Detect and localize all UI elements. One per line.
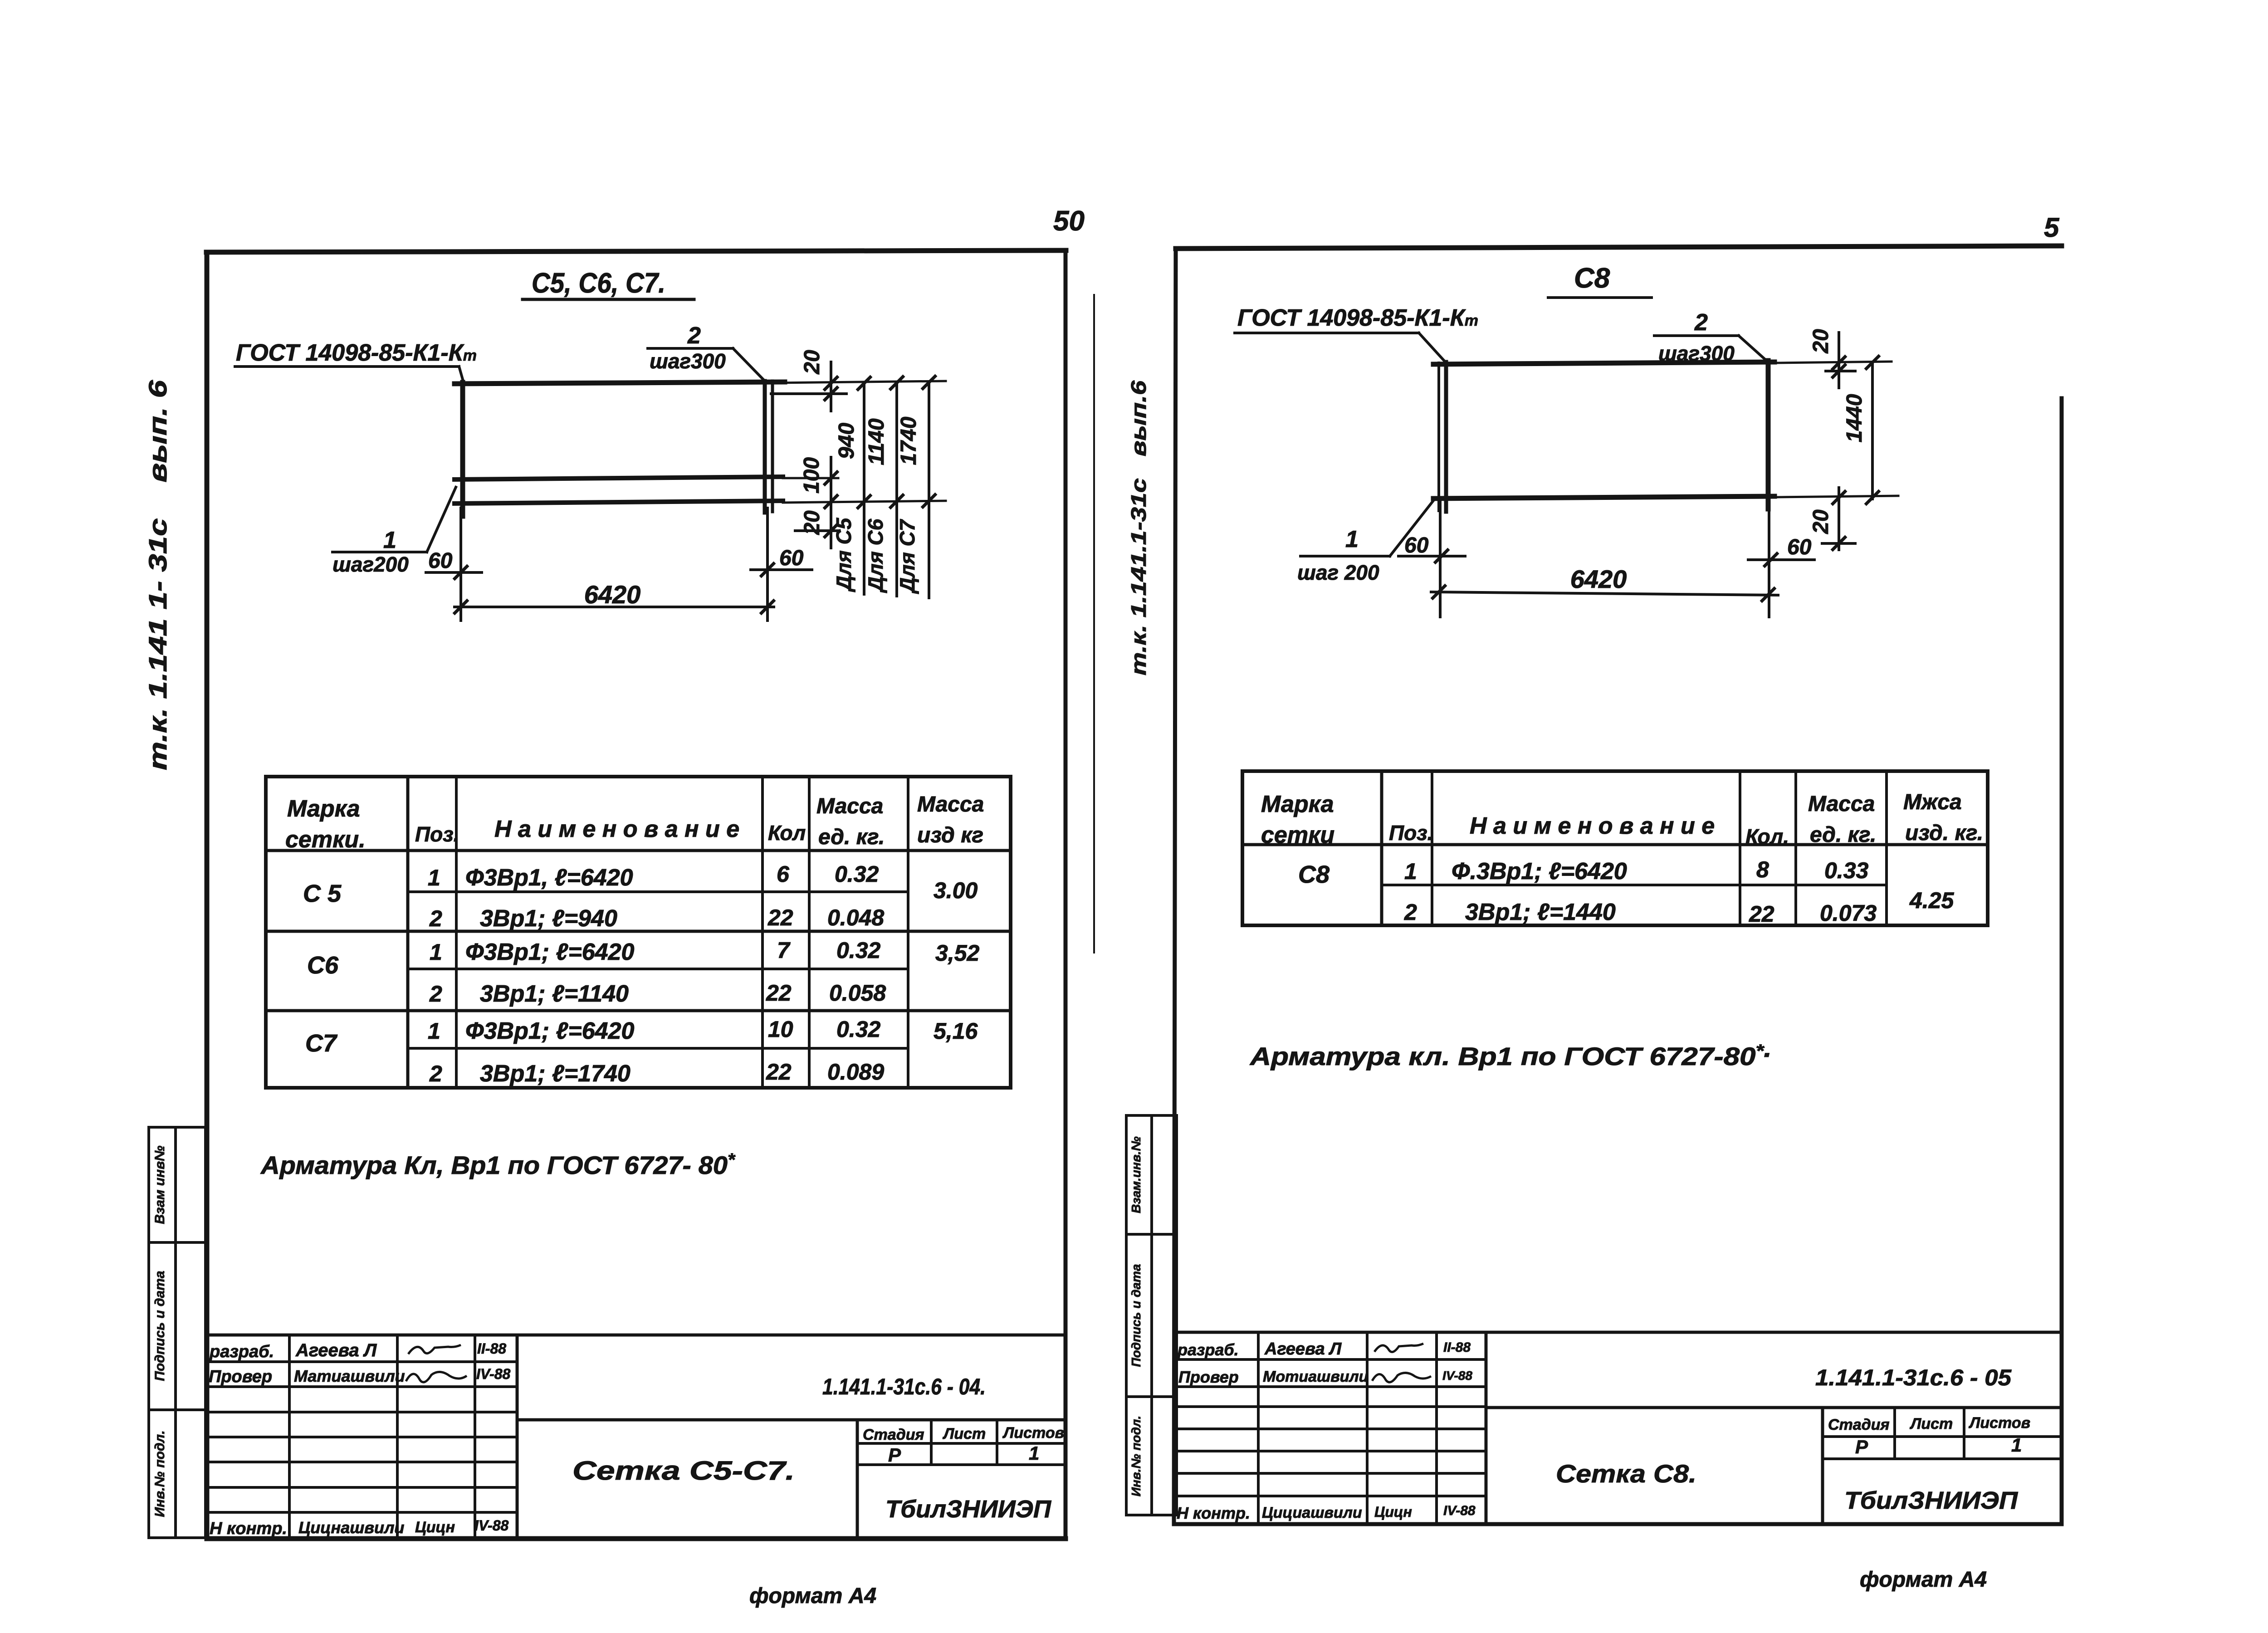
rtb row3 [1174, 1405, 1486, 1408]
svg-text:изд. кг.: изд. кг. [1905, 821, 1983, 845]
title underline [523, 298, 694, 301]
svg-text:Цициашвили: Цициашвили [1262, 1504, 1362, 1521]
svg-text:6420: 6420 [584, 580, 641, 609]
svg-text:100: 100 [800, 457, 824, 494]
svg-text:Н а и м е н о в а н и е: Н а и м е н о в а н и е [1470, 813, 1715, 839]
svg-text:шаг200: шаг200 [332, 552, 409, 576]
chain line 940 [863, 383, 865, 594]
svg-text:1440: 1440 [1843, 394, 1867, 442]
svg-text:Лист: Лист [1909, 1415, 1953, 1433]
svg-text:1: 1 [1029, 1442, 1039, 1464]
dim line 60 right rs [1748, 558, 1814, 561]
svg-text:Ф3Вр1; ℓ=6420: Ф3Вр1; ℓ=6420 [465, 939, 634, 965]
svg-text:сетки: сетки [1261, 822, 1334, 848]
rtb doc cell bottom [1486, 1406, 2060, 1409]
svg-text:2: 2 [1694, 309, 1708, 336]
svg-text:Для С5: Для С5 [832, 517, 855, 592]
svg-text:Поз.: Поз. [415, 822, 459, 846]
svg-text:Мжса: Мжса [1903, 790, 1962, 814]
tb row razrab [207, 1360, 517, 1363]
dim line 60 left [426, 571, 482, 574]
rtable v left [1241, 771, 1244, 925]
svg-text:С6: С6 [307, 952, 339, 979]
svg-text:Матиашвили: Матиашвили [294, 1367, 405, 1385]
tb row3 [207, 1411, 517, 1413]
stamp divider rs [1150, 1115, 1153, 1515]
tick 20 top b [824, 386, 838, 401]
svg-text:С8: С8 [1298, 861, 1330, 888]
chain 1140 tick top [890, 376, 904, 390]
table major line C6/C7 [266, 1009, 1011, 1012]
tb v1 [288, 1335, 291, 1539]
tick 60 left rs [1434, 549, 1449, 563]
tick 100 b [824, 494, 838, 509]
svg-text:0.089: 0.089 [827, 1059, 884, 1085]
rtb stadia header bottom [1823, 1435, 2060, 1438]
tb row4 [207, 1436, 517, 1438]
svg-text:разраб.: разраб. [1177, 1340, 1239, 1359]
leader pos 1 line right [1300, 555, 1390, 557]
svg-text:3,52: 3,52 [935, 940, 980, 966]
svg-text:7: 7 [777, 938, 791, 963]
rtable v massa [1885, 771, 1888, 925]
svg-text:20: 20 [800, 510, 824, 535]
chain line 1740 [928, 381, 930, 598]
svg-text:Листов: Листов [1002, 1424, 1064, 1442]
rtb row5 [1174, 1450, 1486, 1452]
svg-text:60: 60 [1404, 533, 1429, 557]
svg-text:Провер: Провер [209, 1367, 272, 1386]
svg-text:Ф3Вр1, ℓ=6420: Ф3Вр1, ℓ=6420 [465, 865, 633, 891]
svg-text:ТбилЗНИИЭП: ТбилЗНИИЭП [1844, 1487, 2018, 1514]
tb doc cell bottom [517, 1418, 1066, 1422]
table v naimen [761, 777, 764, 1088]
svg-text:Мотиашвили: Мотиашвили [1263, 1368, 1369, 1385]
svg-text:формат А4: формат А4 [1860, 1568, 1987, 1592]
svg-text:1: 1 [383, 527, 396, 553]
svg-text:6: 6 [777, 861, 790, 887]
svg-text:Стадия: Стадия [863, 1426, 924, 1443]
svg-text:Для С6: Для С6 [864, 518, 887, 593]
chain line 1440 [1871, 362, 1874, 499]
ext top wire right rs [1778, 362, 1892, 363]
svg-text:С8: С8 [1574, 263, 1610, 294]
svg-text:Арматура Кл, Вр1 по ГОСТ 6727: Арматура Кл, Вр1 по ГОСТ 6727- 80* [260, 1150, 736, 1179]
svg-text:22: 22 [767, 905, 793, 930]
svg-text:Кол: Кол [768, 821, 806, 845]
svg-text:Инв.№ подл.: Инв.№ подл. [152, 1430, 167, 1517]
tick 6420 right [760, 600, 775, 614]
table v massa [907, 777, 909, 1088]
svg-text:Подпись и дата: Подпись и дата [1129, 1264, 1143, 1367]
svg-text:ГОСТ 14098-85-К1-Кт: ГОСТ 14098-85-К1-Кт [236, 340, 477, 366]
svg-text:Р: Р [1855, 1436, 1868, 1457]
svg-text:Листов: Листов [1968, 1414, 2030, 1432]
svg-text:Стадия: Стадия [1828, 1416, 1890, 1433]
ext 20 top edge rs [1826, 370, 1855, 372]
left sheet frame bottom [207, 1536, 1066, 1541]
svg-text:1: 1 [430, 939, 442, 965]
svg-text:Ф3Вр1; ℓ=6420: Ф3Вр1; ℓ=6420 [465, 1018, 634, 1044]
table v kol [808, 777, 811, 1088]
tb v3 [474, 1335, 476, 1539]
svg-text:0.048: 0.048 [827, 905, 884, 930]
svg-text:С5, С6, С7.: С5, С6, С7. [532, 268, 665, 299]
leader pos 2 diagonal right [1739, 336, 1769, 363]
svg-text:IV-88: IV-88 [1443, 1503, 1476, 1518]
svg-text:II-88: II-88 [477, 1340, 506, 1357]
svg-text:формат А4: формат А4 [749, 1584, 876, 1608]
tick 20 top b rs [1832, 364, 1846, 378]
svg-text:С7: С7 [305, 1030, 338, 1057]
tick 20 top a rs [1832, 356, 1846, 370]
svg-text:1: 1 [1404, 859, 1417, 884]
rtb v list/listov [1963, 1408, 1965, 1459]
svg-text:Взам инв№: Взам инв№ [152, 1145, 167, 1224]
svg-text:Марка: Марка [287, 796, 360, 822]
tick 100 a [824, 471, 838, 485]
mesh C8 bottom wire [1433, 496, 1774, 499]
mesh C8 left edge wire (pos 1) [1444, 362, 1448, 512]
svg-text:2: 2 [687, 323, 701, 349]
ext left 6420 right sheet [1439, 501, 1442, 617]
right sheet frame left [1174, 249, 1176, 1524]
dim line 60 left rs [1398, 555, 1465, 557]
table v right [1009, 777, 1012, 1088]
chain 940 tick top [857, 376, 871, 391]
svg-text:Лист: Лист [942, 1425, 986, 1442]
svg-text:2: 2 [429, 1061, 442, 1086]
tick 6420 right rs [1761, 587, 1775, 602]
svg-text:Кол.: Кол. [1745, 825, 1789, 848]
left sheet frame left [205, 252, 210, 1539]
dim line 20 bottom vertical [830, 513, 832, 548]
rtb v1 [1257, 1332, 1260, 1524]
tb v2 [396, 1335, 399, 1539]
right sheet frame bottom [1174, 1522, 2062, 1526]
svg-text:шаг300: шаг300 [1658, 342, 1735, 365]
svg-text:Цицн: Цицн [1374, 1504, 1412, 1520]
rtb v3 [1435, 1332, 1438, 1524]
table minor line C7 [408, 1047, 908, 1050]
svg-text:1: 1 [428, 1018, 440, 1044]
tb row6 [207, 1486, 517, 1489]
tick 60 right [760, 562, 775, 577]
svg-text:5: 5 [2044, 212, 2060, 243]
svg-text:3Вр1; ℓ=1440: 3Вр1; ℓ=1440 [1465, 899, 1616, 925]
svg-text:IV-88: IV-88 [474, 1517, 509, 1534]
svg-text:0.32: 0.32 [836, 1017, 881, 1042]
rtb v stadia/list [1893, 1408, 1896, 1459]
svg-text:1: 1 [1345, 526, 1359, 552]
svg-text:Инв.№ подл.: Инв.№ подл. [1129, 1416, 1143, 1496]
svg-text:ТбилЗНИИЭП: ТбилЗНИИЭП [885, 1496, 1051, 1523]
right sheet frame top [1176, 246, 2062, 249]
mesh C8 right edge wire (pos 1) [1766, 361, 1771, 509]
svg-text:0.073: 0.073 [1820, 900, 1877, 926]
stamp divider [174, 1127, 177, 1538]
svg-text:1.141.1-31с.6 - 04.: 1.141.1-31с.6 - 04. [822, 1374, 986, 1399]
leader pos 1 line [332, 551, 427, 553]
signature razrab left [408, 1345, 461, 1354]
chain line 1140 [895, 382, 898, 596]
dim line 100 vertical [830, 457, 832, 510]
tb v setka/stadia [856, 1420, 859, 1539]
stamp box inv podl rs [1126, 1397, 1177, 1515]
svg-text:20: 20 [800, 350, 824, 375]
chain 1740 tick bottom [922, 494, 936, 508]
svg-text:Марка: Марка [1261, 791, 1334, 817]
mesh left edge wire (pos 1) [460, 382, 465, 516]
svg-text:разраб.: разраб. [209, 1342, 274, 1361]
svg-text:Н а и м е н о в а н и е: Н а и м е н о в а н и е [494, 816, 739, 842]
chain 1740 tick top [922, 375, 936, 390]
rtable v marka [1380, 771, 1383, 925]
leader diagonal GOST right [1419, 333, 1447, 364]
ext line right for 6420 [766, 508, 769, 621]
tick 20 bot b rs [1832, 536, 1846, 551]
svg-text:Масса: Масса [917, 792, 984, 816]
svg-text:IV-88: IV-88 [1442, 1369, 1472, 1383]
svg-text:2: 2 [1404, 900, 1417, 925]
tb v list/listov [996, 1420, 998, 1465]
ext 20 bottom edge rs [1822, 542, 1855, 545]
ext line 20 bottom edge [795, 529, 838, 532]
tick 6420 left [454, 600, 468, 614]
signature prover left [406, 1372, 467, 1382]
table minor line C5 [408, 890, 908, 893]
leader underline GOST right [1235, 332, 1419, 334]
svg-text:22: 22 [1749, 901, 1774, 927]
svg-text:0.058: 0.058 [829, 980, 886, 1006]
svg-text:2: 2 [429, 981, 442, 1007]
table top [266, 775, 1011, 778]
svg-text:Сетка С5-С7.: Сетка С5-С7. [572, 1456, 795, 1486]
svg-text:С 5: С 5 [303, 880, 342, 907]
svg-text:Провер: Провер [1178, 1368, 1239, 1386]
dim line 20 top vertical [830, 362, 832, 411]
svg-text:Цицн: Цицн [415, 1519, 455, 1536]
ext line middle wire right [783, 477, 838, 479]
svg-text:Подпись и дата: Подпись и дата [152, 1271, 167, 1381]
table minor line C6 [408, 968, 908, 970]
svg-text:5,16: 5,16 [934, 1018, 978, 1044]
rtb row prover [1174, 1385, 1486, 1388]
rtb stadia values bottom [1823, 1457, 2060, 1460]
svg-text:0.32: 0.32 [835, 861, 879, 887]
svg-text:50: 50 [1053, 205, 1085, 237]
svg-text:0.32: 0.32 [836, 938, 881, 963]
svg-text:22: 22 [766, 980, 792, 1006]
rtb v setka/stadia [1821, 1408, 1824, 1524]
svg-text:т.к. 1.141 1- 31с вып. 6: т.к. 1.141 1- 31с вып. 6 [143, 380, 172, 770]
rtable header bottom [1242, 843, 1988, 846]
svg-text:Поз.: Поз. [1389, 821, 1433, 845]
svg-text:II-88: II-88 [1443, 1340, 1471, 1355]
left sheet frame right [1064, 250, 1068, 1539]
table v marka [406, 777, 410, 1088]
svg-text:Агеева Л: Агеева Л [1264, 1340, 1342, 1359]
stamp box inv podl [149, 1410, 205, 1538]
ext line 20 top edge [771, 392, 846, 395]
tick 6420 left rs [1432, 585, 1446, 599]
rtb v4 [1485, 1332, 1488, 1524]
svg-text:20: 20 [1809, 329, 1833, 354]
mesh bottom wire [455, 501, 783, 504]
dim 20 bottom vertical rs [1838, 488, 1840, 550]
svg-text:60: 60 [428, 549, 453, 573]
svg-text:3.00: 3.00 [934, 878, 978, 903]
dim line 60 right [751, 568, 812, 571]
stamp box podpis data rs [1126, 1234, 1177, 1397]
leader pos 1 diagonal right [1390, 499, 1434, 556]
rtb row nkontr [1174, 1495, 1486, 1497]
svg-text:1740: 1740 [897, 416, 921, 465]
svg-text:ГОСТ 14098-85-К1-Кт: ГОСТ 14098-85-К1-Кт [1237, 305, 1478, 331]
tb row nkontr [207, 1511, 517, 1514]
svg-text:ед. кг.: ед. кг. [1810, 823, 1876, 847]
mesh right edge wire second [771, 381, 774, 512]
stamp box vzam inv rs [1126, 1115, 1177, 1234]
tb row prover [207, 1385, 517, 1388]
svg-text:т.к. 1.141.1-31с вып.6: т.к. 1.141.1-31с вып.6 [1127, 380, 1150, 675]
svg-text:Взам.инв.№: Взам.инв.№ [1129, 1136, 1143, 1213]
svg-text:10: 10 [768, 1017, 793, 1042]
svg-text:IV-88: IV-88 [476, 1366, 511, 1382]
svg-text:Р: Р [888, 1444, 901, 1466]
svg-text:Сетка С8.: Сетка С8. [1556, 1459, 1696, 1488]
svg-text:Масса: Масса [816, 794, 883, 818]
svg-text:3Вр1; ℓ=1740: 3Вр1; ℓ=1740 [480, 1061, 631, 1087]
leader pos 2 line right [1654, 334, 1739, 337]
svg-text:Цицнашвили: Цицнашвили [298, 1518, 404, 1537]
dim line 6420 [455, 606, 774, 608]
svg-text:3Вр1; ℓ=940: 3Вр1; ℓ=940 [480, 905, 617, 932]
rtable minor line [1382, 884, 1887, 886]
tick 20 bottom [824, 523, 838, 538]
leader diagonal GOST [459, 367, 464, 384]
dim 20 top vertical rs [1838, 332, 1840, 388]
mesh C8 top wire (pos 2) [1433, 362, 1774, 364]
tb stadia values bottom [857, 1463, 1066, 1466]
title underline right [1548, 296, 1652, 299]
svg-text:22: 22 [766, 1059, 792, 1085]
svg-text:Ф.3Вр1; ℓ=6420: Ф.3Вр1; ℓ=6420 [1452, 858, 1627, 885]
left sheet frame top [206, 250, 1066, 252]
tick 60 right rs [1764, 552, 1778, 567]
svg-text:1.141.1-31с.6 - 05: 1.141.1-31с.6 - 05 [1815, 1365, 2012, 1390]
leader pos 2 line [648, 347, 733, 350]
signature razrab right [1374, 1344, 1423, 1352]
tick 60 left [454, 565, 468, 580]
svg-text:сетки.: сетки. [285, 826, 366, 853]
table major line C5/C6 [266, 930, 1011, 933]
mesh top wire (pos 2) [455, 382, 785, 384]
rtable v kol [1794, 771, 1797, 925]
table v poz [455, 777, 458, 1088]
table header bottom [266, 849, 1011, 852]
svg-text:шаг 200: шаг 200 [1297, 561, 1379, 584]
stamp box vzam inv [149, 1127, 205, 1242]
dim line 6420 rs [1431, 592, 1778, 595]
svg-text:3Вр1; ℓ=1140: 3Вр1; ℓ=1140 [480, 981, 629, 1007]
svg-text:60: 60 [1787, 535, 1812, 559]
svg-text:шаг300: шаг300 [650, 349, 726, 373]
leader pos 2 diagonal [733, 348, 766, 382]
tb v stadia/list [930, 1420, 933, 1465]
tb v4 [516, 1335, 519, 1539]
svg-text:6420: 6420 [1570, 565, 1627, 593]
svg-text:0.33: 0.33 [1824, 858, 1869, 883]
table v left [264, 777, 268, 1088]
rtb row4 [1174, 1428, 1486, 1430]
tb top [207, 1334, 1066, 1337]
svg-text:2: 2 [429, 906, 442, 931]
svg-text:60: 60 [779, 546, 804, 570]
rtb row razrab [1174, 1358, 1486, 1361]
chain 940 tick bottom [857, 494, 871, 509]
rtable v right [1986, 771, 1989, 925]
svg-text:1: 1 [2011, 1434, 2022, 1456]
ext line top wire right [777, 381, 946, 383]
tick 20 top a [824, 376, 838, 391]
svg-text:1: 1 [428, 865, 440, 890]
ext right 6420 right sheet [1768, 510, 1770, 617]
svg-text:изд кг: изд кг [917, 823, 983, 847]
ext line left for 6420 [459, 508, 462, 621]
page fold line between sheets [1093, 295, 1095, 953]
rtable top [1242, 769, 1988, 773]
rtb row6 [1174, 1472, 1486, 1475]
stamp box podpis data [149, 1242, 205, 1410]
svg-text:940: 940 [835, 423, 859, 459]
ext line bottom wire right [783, 501, 946, 503]
rtable bottom [1242, 924, 1988, 927]
chain 1140 tick bottom [890, 494, 904, 508]
svg-text:8: 8 [1756, 857, 1769, 882]
mesh middle wire [455, 477, 783, 479]
chain 1440 tick bottom [1865, 490, 1880, 505]
svg-text:Агеева Л: Агеева Л [295, 1340, 377, 1360]
mesh right edge wire (pos 1) [763, 381, 767, 513]
tb stadia header bottom [857, 1442, 1066, 1445]
rtable v poz [1431, 771, 1433, 925]
svg-text:Н контр.: Н контр. [1177, 1504, 1250, 1522]
rtb v2 [1366, 1332, 1369, 1524]
right sheet frame right [2060, 398, 2064, 1524]
signature prover right [1372, 1373, 1431, 1382]
svg-text:Для С7: Для С7 [895, 518, 919, 594]
table bottom [266, 1086, 1011, 1090]
leader pos 1 diagonal [427, 487, 456, 552]
leader underline GOST [235, 365, 459, 368]
svg-text:20: 20 [1809, 509, 1833, 534]
svg-text:Масса: Масса [1808, 792, 1875, 816]
rtable v naimen [1739, 771, 1741, 925]
svg-text:Н контр.: Н контр. [210, 1519, 287, 1538]
svg-text:ед. кг.: ед. кг. [818, 825, 885, 849]
chain 1440 tick top [1865, 355, 1880, 370]
tb row5 [207, 1461, 517, 1463]
ext bottom wire right rs [1778, 496, 1898, 497]
mesh C8 left edge wire second [1437, 363, 1440, 511]
svg-text:4.25: 4.25 [1909, 888, 1955, 913]
rtb top [1174, 1331, 2060, 1334]
tick 20 bot a rs [1832, 490, 1846, 505]
svg-text:1140: 1140 [865, 418, 889, 465]
